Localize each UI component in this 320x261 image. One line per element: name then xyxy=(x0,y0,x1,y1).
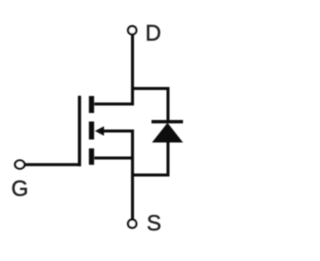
wire top branch to diode xyxy=(131,87,168,90)
wire gate horizontal xyxy=(25,163,82,166)
terminal G xyxy=(15,160,25,168)
wire source horizontal xyxy=(94,157,134,160)
transistor Q1 drain channel bar xyxy=(89,96,94,113)
wire drain vertical xyxy=(131,35,134,104)
transistor Q1 body channel bar xyxy=(89,122,94,140)
diode D1 triangle xyxy=(153,124,182,142)
terminal D xyxy=(128,26,136,34)
svg-text:D: D xyxy=(145,21,161,46)
diode D1 cathode wire xyxy=(167,87,170,121)
wire bottom branch from diode xyxy=(131,174,170,177)
transistor Q1 body arrow xyxy=(95,126,104,136)
terminal S xyxy=(128,220,136,228)
wire source vertical to S xyxy=(131,130,134,219)
diode D1 cathode bar xyxy=(152,120,184,123)
svg-text:G: G xyxy=(11,176,28,201)
transistor Q1 gate electrode xyxy=(78,96,81,167)
transistor Q1 source channel bar xyxy=(89,148,94,164)
svg-text:S: S xyxy=(147,211,162,236)
wire drain horizontal to transistor xyxy=(94,103,134,106)
diode D1 anode wire xyxy=(167,141,170,177)
wire body connection xyxy=(104,130,135,133)
